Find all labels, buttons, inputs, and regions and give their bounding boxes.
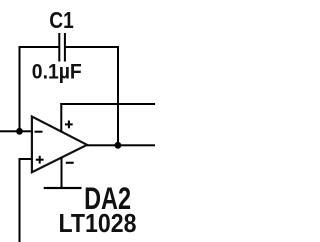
op-amp inverting input minus sign: [35, 131, 43, 133]
wire left vertical (cap to node A): [19, 46, 21, 132]
op-amp non-inverting input plus sign: [36, 159, 44, 161]
wire bottom-left vertical: [19, 158, 21, 242]
wire cap left horizontal: [19, 46, 59, 48]
wire V+ pin vertical: [60, 103, 62, 132]
V+ plus sign: [65, 123, 73, 125]
wire non-inverting input: [19, 158, 33, 160]
svg-text:LT1028: LT1028: [59, 210, 137, 238]
wire V- pin vertical: [61, 157, 63, 189]
wire top rail: [60, 103, 155, 105]
V- minus sign: [66, 162, 74, 164]
node A junction dot: [16, 128, 23, 135]
wire cap right vertical (to output): [117, 46, 119, 146]
wire output: [87, 144, 155, 146]
output junction dot: [115, 142, 122, 149]
ground: [44, 187, 82, 189]
capacitor C1: [58, 33, 60, 62]
svg-text:0.1µF: 0.1µF: [32, 59, 82, 83]
svg-text:C1: C1: [49, 7, 74, 33]
op-amp DA2 triangle: [32, 117, 87, 173]
wire cap right horizontal: [66, 46, 119, 48]
wire inverting input: [0, 130, 32, 132]
